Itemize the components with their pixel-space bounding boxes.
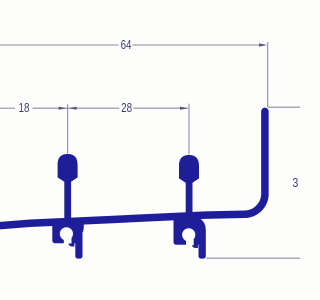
clip 1 under stud 1 (snap channel) (52, 220, 84, 259)
svg-text:3: 3 (292, 176, 298, 190)
clip 1 bottom slot opening (64, 238, 72, 244)
extension line bottom right (y=258.2) (206, 257, 300, 259)
clip 2 left leg (173, 215, 198, 245)
clip 2 under stud 2 (snap channel) (173, 214, 205, 259)
extension line top right (y=107.2) (268, 106, 300, 108)
svg-text:64: 64 (121, 38, 132, 52)
dimension line 18-28 (0, 107, 188, 109)
clip 2 right leg (199, 214, 206, 259)
extension line above stud 2 (188, 104, 190, 155)
clip 1 left leg (52, 220, 82, 243)
arrow right of dim 28 (180, 107, 188, 110)
stud 1 (mushroom head) (58, 154, 78, 224)
stud 2 (mushroom head) (179, 155, 199, 219)
arrow pair at x=67.6 (59, 107, 67, 110)
clip 2 right hook (192, 241, 198, 248)
extension line right (x=267.7) (267, 42, 269, 107)
svg-text:28: 28 (121, 101, 132, 115)
extension line above stud 1 (67, 104, 69, 153)
arrow right of dim 64 (259, 43, 267, 46)
profile base plate + right wall (aluminium rail) (0, 111, 265, 225)
clip 1 right hook (68, 240, 74, 247)
svg-text:5: 5 (299, 176, 300, 190)
dimension line 64 (0, 44, 261, 46)
svg-text:18: 18 (19, 101, 30, 115)
clip 2 bottom slot opening (186, 240, 194, 246)
clip 1 right leg (75, 220, 84, 259)
clip 1 round channel hole (60, 227, 73, 240)
clip 2 round channel hole (182, 228, 195, 241)
